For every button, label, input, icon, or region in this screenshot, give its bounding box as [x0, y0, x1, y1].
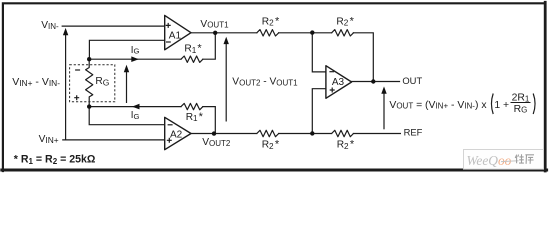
watermark box: [464, 150, 544, 170]
minus sign A2: [168, 124, 173, 126]
arrow VOUT formula: [383, 93, 385, 129]
watermark glyph wei: [515, 154, 524, 163]
arrowhead IG bottom (current direction left): [132, 104, 140, 110]
svg-text:VOUT = (VIN+ - VIN-) x: VOUT = (VIN+ - VIN-) x: [389, 100, 487, 111]
svg-text:R2*: R2*: [262, 139, 280, 151]
wire VIN- to A1 + input: [62, 25, 165, 27]
wire R2 top-right to feedback corner: [353, 33, 373, 82]
op-amp A2: [165, 117, 191, 149]
svg-text:VOUT2: VOUT2: [202, 137, 231, 148]
wire between top R2 resistors: [279, 32, 332, 34]
wire R1 bottom to VOUT2 node: [203, 107, 216, 134]
svg-text:RG: RG: [95, 76, 109, 88]
svg-text:RG: RG: [514, 104, 528, 115]
svg-text:VOUT1: VOUT1: [200, 19, 229, 30]
svg-text:VOUT2 - VOUT1: VOUT2 - VOUT1: [232, 77, 298, 88]
node RG bottom: [87, 104, 91, 108]
wire A2 - input feedback: [89, 107, 165, 125]
svg-text:A2: A2: [170, 130, 183, 141]
node A3 inverting branch: [310, 30, 314, 34]
node VOUT2: [212, 131, 216, 135]
svg-text:A1: A1: [169, 31, 182, 42]
plus sign A2: [167, 138, 172, 143]
svg-text:IG: IG: [131, 45, 140, 56]
plus sign A3: [330, 88, 335, 93]
svg-text:A3: A3: [332, 77, 345, 88]
resistor R2 top-right zigzag: [332, 30, 354, 36]
resistor R2 bottom-left zigzag: [257, 130, 279, 136]
watermark Q tail strike line: [501, 160, 519, 163]
op-amp A1: [165, 15, 352, 149]
resistor R1 top zigzag: [181, 56, 203, 62]
resistor RG vertical with leads: [86, 59, 93, 106]
svg-text:R1*: R1*: [186, 111, 204, 123]
minus sign A1: [166, 41, 171, 43]
wire A3 noninverting input down to bottom node: [312, 89, 326, 134]
wire A1 output to R2: [191, 32, 257, 34]
wire R2 bottom-right to REF: [353, 133, 400, 135]
node A3 noninverting branch: [310, 131, 314, 135]
plus sign RG box: [74, 95, 79, 100]
wire between bottom R2 resistors: [279, 133, 332, 135]
svg-text:REF: REF: [404, 126, 423, 137]
arrowhead IG top (current direction right): [131, 56, 139, 62]
wire R1 top to VOUT1 node: [203, 33, 216, 59]
wire VIN+ to A2 + input: [63, 139, 165, 141]
svg-text:1 +: 1 +: [494, 100, 509, 111]
svg-text:VIN-: VIN-: [41, 20, 59, 31]
svg-text:VIN+: VIN+: [39, 134, 59, 145]
wire A2 output to R2 bottom: [191, 133, 257, 135]
arrow VOUT2 minus VOUT1: [225, 43, 227, 122]
svg-text:R2*: R2*: [337, 139, 355, 151]
svg-text:VIN+ - VIN-: VIN+ - VIN-: [12, 76, 60, 88]
minus sign RG box: [75, 69, 80, 71]
svg-text:OUT: OUT: [402, 75, 422, 86]
wire node to A3 inverting input: [312, 33, 326, 72]
wire IG bottom (RG node to R1 bottom): [89, 106, 181, 108]
junction dots: [87, 30, 375, 135]
node RG top: [87, 57, 91, 61]
arrow VIN+ minus VIN- (left differential): [65, 33, 67, 140]
plus sign A1: [74, 23, 335, 143]
formula big left paren: [491, 94, 493, 115]
wire IG top (RG node to R1): [89, 58, 181, 60]
svg-text:R2*: R2*: [336, 15, 354, 27]
border frame: [2, 2, 547, 171]
wire A3 output to OUT: [352, 81, 400, 83]
node OUT: [371, 79, 375, 83]
op-amp A3: [326, 66, 352, 99]
minus sign A3: [329, 71, 334, 73]
arrow across RG: [126, 71, 128, 103]
formula big right paren: [533, 94, 535, 115]
formula fraction bar: [511, 102, 531, 104]
svg-text:R1*: R1*: [184, 43, 202, 55]
svg-text:R2*: R2*: [262, 15, 280, 27]
resistor R2 top-left zigzag: [257, 30, 279, 36]
watermark glyph ku: [525, 155, 534, 164]
wire A1 - input feedback: [89, 40, 164, 59]
svg-text:* R1 = R2 = 25kΩ: * R1 = R2 = 25kΩ: [14, 153, 96, 166]
dashed gain-set box around RG: [70, 65, 115, 102]
resistor R2 bottom-right zigzag: [332, 130, 354, 136]
resistor R1 bottom zigzag: [181, 103, 203, 109]
svg-text:WeeQoo: WeeQoo: [467, 153, 512, 168]
node VOUT1: [213, 31, 217, 35]
svg-text:IG: IG: [131, 110, 140, 121]
